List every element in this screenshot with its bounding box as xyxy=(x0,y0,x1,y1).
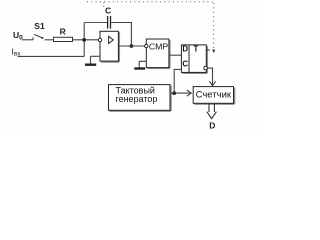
wire from U0 xyxy=(22,39,33,41)
op-amp U1 box shadow xyxy=(101,32,119,62)
capacitor C plates xyxy=(108,16,111,29)
svg-text:CMP: CMP xyxy=(149,41,169,51)
clock generator box shadow xyxy=(110,86,171,111)
op-amp output wire xyxy=(119,45,145,47)
svg-text:U0: U0 xyxy=(13,30,23,42)
flip-flop T box xyxy=(181,45,206,73)
wire node to capacitor xyxy=(84,22,107,24)
arrowhead into counter top xyxy=(209,81,215,86)
flip-flop clock stub xyxy=(206,49,210,51)
svg-text:C: C xyxy=(182,60,188,69)
hollow output arrow shafts xyxy=(209,104,214,112)
svg-text:S1: S1 xyxy=(34,21,45,31)
junction at op-amp output xyxy=(130,44,134,48)
flip-flop output circle xyxy=(204,66,208,70)
generator output wire xyxy=(171,92,190,94)
junction node A xyxy=(82,38,86,42)
svg-text:Счетчик: Счетчик xyxy=(196,89,232,100)
svg-text:D: D xyxy=(182,45,188,54)
wire switch to resistor xyxy=(45,39,54,41)
flip-flop T box shadow xyxy=(182,46,207,73)
arrowhead into counter left xyxy=(187,90,191,96)
flip-flop divider xyxy=(188,45,190,73)
hollow output arrow head xyxy=(207,112,217,119)
comparator CMP box xyxy=(146,39,169,68)
ground (op-amp) vertical xyxy=(90,56,92,63)
wire Iвх xyxy=(18,55,85,57)
switch S1 left contact pip xyxy=(32,37,34,40)
svg-text:генератор: генератор xyxy=(116,94,158,104)
CMP output wire to D input xyxy=(170,54,182,56)
svg-text:R: R xyxy=(60,27,66,37)
op-amp lower input wire xyxy=(91,55,101,57)
dashed annotation line (top) xyxy=(87,1,214,3)
node vertical wire (C / R / Iвх node) xyxy=(83,23,85,57)
counter box shadow xyxy=(194,88,234,104)
ground (op-amp) bar xyxy=(85,63,96,65)
wire resistor to op-amp input xyxy=(73,39,100,41)
switch S1 blade xyxy=(34,35,42,38)
svg-text:T: T xyxy=(194,45,199,54)
op-amp triangle xyxy=(109,36,114,43)
counter box xyxy=(193,87,233,104)
comparator CMP box shadow xyxy=(147,40,170,68)
wire capacitor to feedback corner xyxy=(111,23,131,47)
ground (CMP) bar xyxy=(134,67,145,69)
dashed annotation stub near C xyxy=(103,2,105,7)
CMP lower input wire xyxy=(139,60,146,62)
wire FF output to counter xyxy=(207,68,212,86)
CMP input circle xyxy=(145,44,148,47)
wire junction up to FF C input xyxy=(174,69,181,93)
op-amp U1 box xyxy=(100,31,118,61)
ground (CMP) vertical xyxy=(138,61,140,67)
op-amp input circle xyxy=(98,38,101,41)
switch S1 blade tip dot xyxy=(41,37,43,39)
svg-text:C: C xyxy=(105,5,111,15)
clock generator box xyxy=(109,85,171,111)
junction on generator wire xyxy=(172,91,176,95)
resistor R xyxy=(54,37,73,41)
svg-text:D: D xyxy=(209,121,215,131)
dashed annotation vertical to flip-flop clock xyxy=(213,3,215,49)
dashed-line arrowhead xyxy=(212,50,215,53)
